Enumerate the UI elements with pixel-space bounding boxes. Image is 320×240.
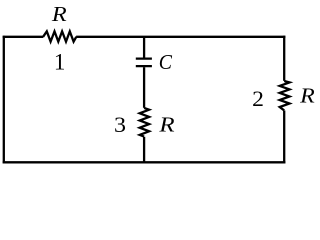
wire middle branch lower (resistor R3 to bottom wire) bbox=[143, 137, 145, 163]
svg-text:R: R bbox=[158, 113, 174, 137]
resistor R1 bbox=[43, 31, 76, 41]
resistor R2 bbox=[280, 81, 290, 110]
wire middle branch (capacitor to resistor R3) bbox=[143, 67, 145, 108]
capacitor C bbox=[136, 57, 152, 59]
svg-text:3: 3 bbox=[114, 112, 126, 137]
svg-text:1: 1 bbox=[54, 50, 66, 75]
svg-text:R: R bbox=[299, 83, 315, 107]
wire right upper segment bbox=[283, 36, 285, 81]
wire middle branch upper (top wire to capacitor) bbox=[143, 37, 145, 58]
wire top-right segment bbox=[76, 36, 285, 38]
svg-text:R: R bbox=[51, 2, 67, 26]
resistor R3 bbox=[140, 108, 149, 137]
wire left side bbox=[3, 36, 5, 164]
wire top-left segment bbox=[3, 36, 44, 38]
svg-text:2: 2 bbox=[252, 86, 264, 111]
wire bottom bbox=[3, 161, 286, 163]
wire right lower segment bbox=[283, 111, 285, 164]
svg-text:C: C bbox=[159, 50, 173, 74]
